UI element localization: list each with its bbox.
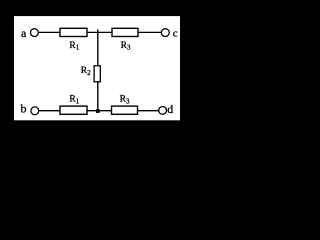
terminal c	[161, 29, 169, 37]
wire b to R1	[39, 110, 60, 112]
resistor R3 (top)	[112, 28, 138, 36]
svg-text:a: a	[21, 26, 27, 40]
wire R3 to d	[138, 110, 159, 112]
wire R1 to R3 (bottom)	[87, 110, 112, 112]
wire R2 to bottom node	[97, 82, 99, 111]
resistor R1 (top)	[60, 28, 87, 36]
resistor R2 (middle, vertical)	[94, 66, 100, 82]
terminal b	[31, 107, 39, 115]
junction dot (bottom node)	[96, 109, 100, 113]
junction tick (top node)	[97, 29, 99, 33]
wire a to R1	[39, 31, 60, 33]
terminal a	[31, 29, 39, 37]
white schematic panel	[14, 16, 180, 120]
terminal d	[159, 107, 167, 115]
wire top node to R2	[97, 32, 99, 65]
wire R3 to c	[138, 31, 161, 33]
resistor R3 (bottom)	[112, 106, 138, 114]
svg-text:b: b	[21, 102, 27, 116]
svg-text:d: d	[167, 102, 173, 116]
svg-text:c: c	[173, 27, 178, 39]
wire R1 to R3 (top)	[87, 31, 112, 33]
resistor R1 (bottom)	[60, 106, 87, 114]
